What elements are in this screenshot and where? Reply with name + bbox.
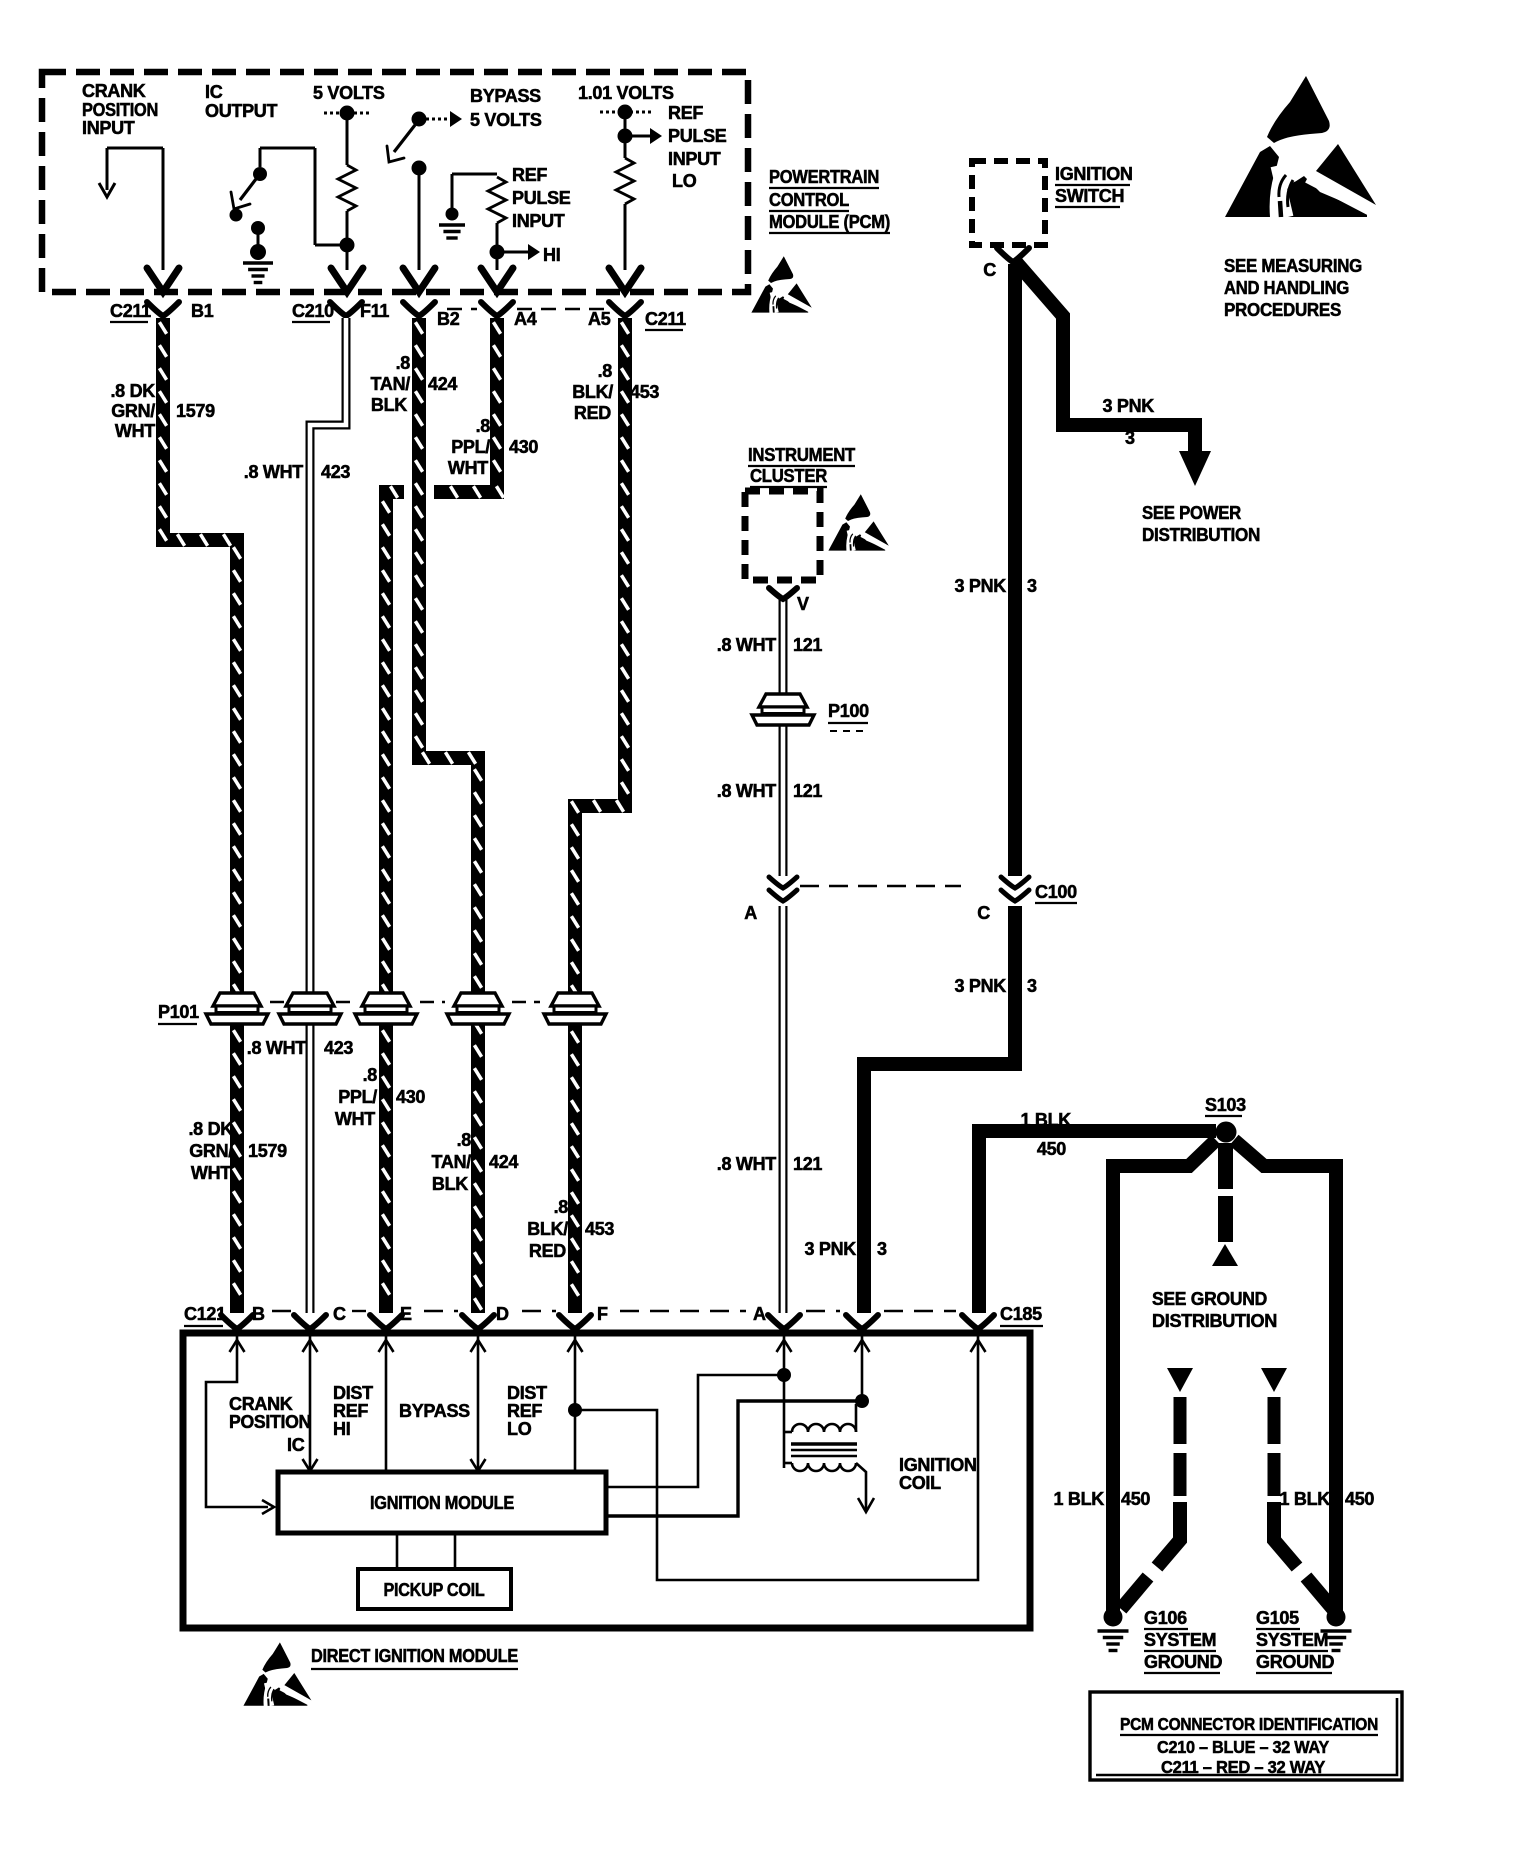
svg-text:1579: 1579: [248, 1141, 287, 1161]
svg-text:IGNITION MODULE: IGNITION MODULE: [370, 1493, 514, 1513]
svg-text:A5: A5: [588, 309, 611, 329]
svg-text:WHT: WHT: [191, 1163, 231, 1183]
svg-text:.8: .8: [476, 416, 491, 436]
svg-text:B: B: [252, 1304, 265, 1324]
svg-text:MODULE (PCM): MODULE (PCM): [769, 212, 890, 232]
svg-text:GRN/: GRN/: [111, 401, 155, 421]
svg-text:1579: 1579: [176, 401, 215, 421]
svg-text:WHT: WHT: [448, 458, 488, 478]
svg-text:1.01 VOLTS: 1.01 VOLTS: [578, 83, 674, 103]
svg-text:DISTRIBUTION: DISTRIBUTION: [1142, 525, 1260, 545]
svg-text:WHT: WHT: [335, 1109, 375, 1129]
svg-text:C100: C100: [1035, 882, 1077, 902]
svg-text:121: 121: [793, 781, 822, 801]
svg-text:GRN/: GRN/: [189, 1141, 233, 1161]
svg-text:C185: C185: [1000, 1304, 1042, 1324]
svg-text:423: 423: [321, 462, 350, 482]
svg-text:424: 424: [489, 1152, 518, 1172]
svg-text:430: 430: [396, 1087, 425, 1107]
svg-text:SEE POWER: SEE POWER: [1142, 503, 1241, 523]
svg-text:424: 424: [428, 374, 457, 394]
svg-text:POSITION: POSITION: [82, 100, 158, 120]
svg-text:PULSE: PULSE: [668, 126, 727, 146]
svg-text:G105: G105: [1256, 1608, 1299, 1628]
svg-text:IC: IC: [205, 82, 223, 102]
svg-text:SEE MEASURING: SEE MEASURING: [1224, 256, 1362, 276]
svg-text:LO: LO: [507, 1419, 532, 1439]
svg-text:BLK/: BLK/: [527, 1219, 568, 1239]
svg-text:.8 WHT: .8 WHT: [717, 635, 777, 655]
svg-text:430: 430: [509, 437, 538, 457]
svg-text:.8: .8: [457, 1130, 472, 1150]
svg-text:B1: B1: [191, 301, 214, 321]
svg-text:CRANK: CRANK: [82, 81, 146, 101]
svg-text:PICKUP COIL: PICKUP COIL: [384, 1580, 485, 1600]
svg-text:POSITION: POSITION: [229, 1412, 311, 1432]
svg-text:HI: HI: [333, 1419, 350, 1439]
svg-text:INSTRUMENT: INSTRUMENT: [748, 445, 855, 465]
svg-text:CONTROL: CONTROL: [769, 190, 849, 210]
svg-text:C211: C211: [110, 301, 151, 321]
svg-text:.8 WHT: .8 WHT: [717, 1154, 777, 1174]
svg-text:BYPASS: BYPASS: [470, 86, 541, 106]
svg-text:C: C: [333, 1304, 346, 1324]
svg-text:3 PNK: 3 PNK: [954, 576, 1006, 596]
svg-text:C210 – BLUE – 32 WAY: C210 – BLUE – 32 WAY: [1157, 1737, 1330, 1757]
svg-text:DIRECT IGNITION MODULE: DIRECT IGNITION MODULE: [311, 1646, 518, 1666]
svg-text:1 BLK: 1 BLK: [1053, 1489, 1104, 1509]
svg-text:REF: REF: [512, 165, 547, 185]
svg-text:SWITCH: SWITCH: [1055, 186, 1124, 206]
svg-text:PPL/: PPL/: [338, 1087, 377, 1107]
svg-text:.8: .8: [554, 1197, 569, 1217]
svg-text:INPUT: INPUT: [668, 149, 721, 169]
svg-text:453: 453: [630, 382, 659, 402]
svg-text:F: F: [597, 1304, 608, 1324]
svg-text:GROUND: GROUND: [1256, 1652, 1334, 1672]
svg-text:D: D: [496, 1304, 509, 1324]
svg-text:SYSTEM: SYSTEM: [1256, 1630, 1328, 1650]
svg-text:1 BLK: 1 BLK: [1020, 1110, 1071, 1130]
svg-text:450: 450: [1121, 1489, 1150, 1509]
svg-text:GROUND: GROUND: [1144, 1652, 1222, 1672]
svg-text:RED: RED: [574, 403, 611, 423]
svg-text:1 BLK: 1 BLK: [1279, 1489, 1330, 1509]
svg-text:3 PNK: 3 PNK: [1102, 396, 1154, 416]
svg-text:REF: REF: [507, 1401, 542, 1421]
svg-text:G106: G106: [1144, 1608, 1187, 1628]
svg-text:423: 423: [324, 1038, 353, 1058]
svg-text:C: C: [977, 903, 990, 923]
svg-text:A: A: [744, 903, 757, 923]
svg-text:S103: S103: [1205, 1095, 1246, 1115]
svg-text:IGNITION: IGNITION: [1055, 164, 1133, 184]
svg-text:TAN/: TAN/: [432, 1152, 472, 1172]
svg-text:INPUT: INPUT: [512, 211, 565, 231]
svg-text:C: C: [983, 260, 996, 280]
svg-text:LO: LO: [672, 171, 697, 191]
svg-text:WHT: WHT: [115, 421, 155, 441]
svg-text:PPL/: PPL/: [451, 437, 490, 457]
svg-text:SEE GROUND: SEE GROUND: [1152, 1289, 1267, 1309]
svg-text:OUTPUT: OUTPUT: [205, 101, 278, 121]
svg-text:450: 450: [1037, 1139, 1066, 1159]
svg-text:DIST: DIST: [333, 1383, 373, 1403]
svg-text:P101: P101: [158, 1002, 199, 1022]
svg-text:PULSE: PULSE: [512, 188, 571, 208]
svg-text:DISTRIBUTION: DISTRIBUTION: [1152, 1311, 1277, 1331]
svg-text:B2: B2: [437, 309, 460, 329]
svg-text:C211 – RED – 32 WAY: C211 – RED – 32 WAY: [1161, 1757, 1326, 1777]
svg-text:3 PNK: 3 PNK: [804, 1239, 856, 1259]
svg-text:.8 WHT: .8 WHT: [244, 462, 304, 482]
svg-text:121: 121: [793, 635, 822, 655]
svg-text:A: A: [753, 1304, 766, 1324]
svg-text:.8 DK: .8 DK: [110, 381, 155, 401]
svg-text:3 PNK: 3 PNK: [954, 976, 1006, 996]
svg-text:.8: .8: [363, 1065, 378, 1085]
svg-text:121: 121: [793, 1154, 822, 1174]
svg-text:C121: C121: [184, 1304, 226, 1324]
svg-text:CRANK: CRANK: [229, 1394, 293, 1414]
svg-text:BYPASS: BYPASS: [399, 1401, 470, 1421]
svg-text:PROCEDURES: PROCEDURES: [1224, 300, 1341, 320]
svg-text:V: V: [797, 594, 809, 614]
svg-text:REF: REF: [333, 1401, 368, 1421]
svg-text:C211: C211: [645, 309, 686, 329]
svg-text:.8: .8: [396, 353, 411, 373]
svg-text:.8 DK: .8 DK: [188, 1119, 233, 1139]
svg-text:BLK/: BLK/: [572, 382, 613, 402]
svg-text:IC: IC: [287, 1435, 305, 1455]
svg-text:TAN/: TAN/: [371, 374, 411, 394]
svg-text:5 VOLTS: 5 VOLTS: [313, 83, 385, 103]
svg-text:INPUT: INPUT: [82, 118, 135, 138]
svg-text:SYSTEM: SYSTEM: [1144, 1630, 1216, 1650]
svg-text:REF: REF: [668, 103, 703, 123]
svg-text:F11: F11: [360, 301, 389, 321]
svg-text:DIST: DIST: [507, 1383, 547, 1403]
svg-text:3: 3: [1125, 428, 1135, 448]
svg-text:CLUSTER: CLUSTER: [750, 466, 827, 486]
svg-text:BLK: BLK: [371, 395, 407, 415]
svg-text:5 VOLTS: 5 VOLTS: [470, 110, 542, 130]
svg-text:POWERTRAIN: POWERTRAIN: [769, 167, 879, 187]
svg-text:COIL: COIL: [899, 1473, 941, 1493]
svg-text:P100: P100: [828, 701, 869, 721]
svg-text:.8: .8: [598, 361, 613, 381]
svg-text:A4: A4: [514, 309, 537, 329]
svg-text:.8 WHT: .8 WHT: [717, 781, 777, 801]
svg-text:BLK: BLK: [432, 1174, 468, 1194]
svg-text:3: 3: [1027, 576, 1037, 596]
svg-text:453: 453: [585, 1219, 614, 1239]
svg-text:RED: RED: [529, 1241, 566, 1261]
svg-text:450: 450: [1345, 1489, 1374, 1509]
svg-text:E: E: [400, 1304, 412, 1324]
svg-text:PCM CONNECTOR IDENTIFICATION: PCM CONNECTOR IDENTIFICATION: [1120, 1714, 1378, 1734]
svg-text:3: 3: [1027, 976, 1037, 996]
svg-text:.8 WHT: .8 WHT: [247, 1038, 307, 1058]
svg-text:AND HANDLING: AND HANDLING: [1224, 278, 1349, 298]
svg-text:HI: HI: [543, 245, 560, 265]
svg-text:3: 3: [877, 1239, 887, 1259]
svg-text:C210: C210: [292, 301, 334, 321]
svg-text:IGNITION: IGNITION: [899, 1455, 977, 1475]
